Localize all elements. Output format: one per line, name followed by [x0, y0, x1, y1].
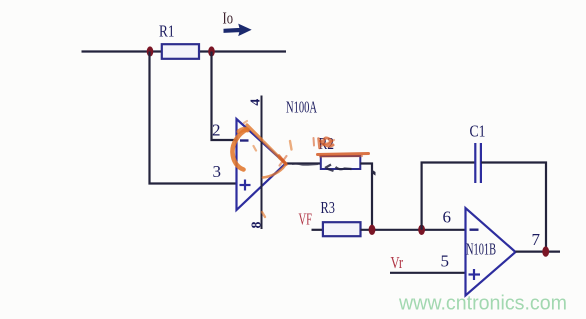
svg-text:8: 8: [249, 222, 264, 229]
orange annotation circle over U1: [232, 121, 291, 217]
svg-text:N100A: N100A: [286, 98, 317, 117]
svg-text:4: 4: [249, 99, 264, 106]
capacitor C1 feedback loop: [422, 143, 546, 252]
node junction A: [369, 225, 376, 235]
svg-text:6: 6: [443, 208, 452, 227]
scribbled-out text near U1 output: [292, 164, 318, 165]
wire J2 to pin2: [212, 52, 237, 141]
wire U1 output to R2: [286, 162, 322, 164]
svg-text:2: 2: [212, 121, 221, 140]
orange annotation over R2: [279, 138, 369, 166]
svg-text:Io: Io: [223, 9, 234, 28]
wire U2 output pin7: [516, 251, 561, 253]
svg-text:N101B: N101B: [466, 240, 496, 259]
svg-text:R1: R1: [159, 22, 175, 41]
svg-text:7: 7: [532, 230, 541, 249]
node junction J1: [147, 46, 154, 56]
resistor R1: [159, 22, 199, 59]
wire Vr to pin5: [390, 272, 466, 274]
svg-text:Vr: Vr: [391, 253, 404, 272]
op-amp U1 N100A: [237, 119, 286, 210]
wire node A to pin6: [361, 229, 466, 231]
wire R2 to node A: [360, 164, 372, 230]
wire J1 to pin3: [150, 52, 237, 184]
wire top horizontal net: [82, 50, 287, 52]
svg-text:VF: VF: [299, 210, 313, 229]
power rail through U1: [261, 96, 263, 230]
op-amp U2 N101B: [466, 208, 516, 296]
scribbled value mark under R2: [325, 165, 352, 172]
wire VF to R3: [312, 229, 324, 231]
svg-text:C1: C1: [470, 122, 486, 141]
svg-text:www.cntronics.com: www.cntronics.com: [398, 293, 567, 315]
node junction B: [418, 225, 425, 235]
pin mark at R2 corner: [371, 169, 376, 176]
svg-text:3: 3: [213, 162, 222, 181]
svg-text:5: 5: [441, 252, 450, 271]
node junction C: [542, 246, 549, 256]
svg-text:R3: R3: [321, 198, 336, 217]
resistor R3: [321, 198, 361, 236]
node junction J2: [208, 46, 215, 56]
arrow Io current direction: [224, 25, 251, 36]
resistor R2: [319, 134, 361, 169]
